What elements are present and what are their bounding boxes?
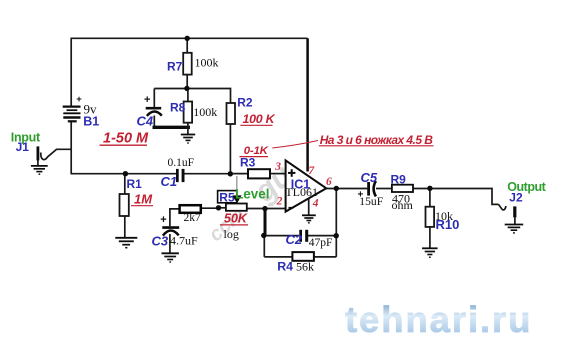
wire R8 top lead	[187, 89, 189, 102]
capacitor C1	[176, 169, 185, 182]
wire C2 row left	[264, 235, 299, 237]
svg-text:B1: B1	[83, 115, 99, 129]
wire R5 wiper from node A	[236, 176, 238, 197]
ground under R1	[115, 238, 137, 248]
wire R7 top lead	[186, 38, 188, 53]
svg-text:100k: 100k	[195, 56, 219, 70]
svg-text:1M: 1M	[134, 192, 153, 207]
node A rail junction	[228, 171, 233, 176]
wire R8 bottom lead	[187, 123, 189, 135]
wire feedback right vertical	[335, 188, 337, 257]
op-amp IC1	[286, 160, 327, 211]
wire C4 top lead	[153, 89, 155, 108]
svg-text:R8: R8	[170, 101, 186, 115]
op-amp plus input sign	[288, 169, 295, 177]
underline pins 4.5V	[319, 145, 434, 147]
wire R5 left lead	[219, 207, 226, 209]
resistor R2	[227, 103, 236, 124]
svg-text:R4: R4	[277, 259, 293, 273]
underline 100 K	[240, 124, 272, 126]
svg-text:4.7uF: 4.7uF	[170, 233, 198, 247]
svg-text:50K: 50K	[224, 212, 248, 226]
node mid junction	[184, 86, 189, 91]
wire R1 bottom lead	[124, 216, 126, 237]
ground under C3	[162, 253, 179, 262]
svg-text:C2: C2	[286, 232, 303, 247]
svg-text:+: +	[144, 94, 150, 106]
ground under R10	[422, 248, 438, 257]
svg-text:Level: Level	[235, 187, 270, 202]
underline 1M	[131, 205, 153, 207]
wire R10 bottom lead	[429, 227, 431, 248]
node C2 right junction	[334, 233, 339, 238]
wire pin 4 lead	[308, 197, 310, 215]
wire R4 row left	[264, 256, 292, 258]
svg-text:TL061: TL061	[285, 185, 318, 199]
wire R5 right lead	[247, 208, 265, 210]
svg-text:47pF: 47pF	[309, 237, 333, 249]
wire battery top lead	[70, 38, 72, 106]
resistor R1	[120, 194, 129, 216]
ground under pin 4	[302, 215, 316, 223]
wire pin 2	[265, 208, 286, 210]
resistor R4	[292, 252, 314, 261]
svg-text:C1: C1	[161, 174, 178, 189]
wire R1 top lead	[124, 174, 126, 194]
input jack J1	[37, 146, 40, 160]
wire node out to J2	[430, 189, 499, 205]
ground under R8	[181, 135, 195, 144]
svg-text:15uF: 15uF	[359, 195, 383, 208]
wire R10 top lead	[429, 189, 431, 207]
wire J2 plug squiggle	[499, 204, 506, 209]
wire mid node right	[187, 89, 231, 104]
op-amp minus input sign	[289, 207, 294, 209]
watermark diagonal gray	[205, 157, 299, 246]
svg-text:ohm: ohm	[392, 198, 414, 212]
wire thick bar C4 to R8 ground	[153, 126, 191, 129]
wire feedback left thick	[264, 209, 267, 236]
capacitor C5	[367, 181, 376, 196]
wire C4 bottom lead	[153, 116, 155, 128]
svg-text:R1: R1	[127, 177, 143, 191]
wire jack J1 to rail	[41, 149, 72, 159]
wire 2k7 to R5 node	[201, 207, 219, 209]
svg-text:2: 2	[276, 196, 283, 208]
wire C1 to node A	[185, 173, 231, 175]
svg-text:На 3 и 6 ножках 4.5 В: На 3 и 6 ножках 4.5 В	[320, 133, 434, 147]
wire node A to R3	[230, 173, 248, 175]
svg-text:1-50 M: 1-50 M	[103, 131, 149, 147]
svg-text:56k: 56k	[296, 260, 314, 274]
svg-text:100k: 100k	[193, 105, 217, 119]
capacitor C4	[146, 107, 162, 116]
resistor R7	[183, 53, 192, 75]
potentiometer R5 wiper arrow	[232, 195, 241, 203]
underline 1-50 M	[100, 144, 148, 146]
node output junction	[334, 186, 339, 191]
wire C3 ground lead	[169, 234, 171, 253]
wire C2 row right	[308, 235, 337, 237]
potentiometer R5 body	[226, 204, 247, 211]
svg-text:4: 4	[312, 198, 319, 210]
battery B1	[63, 107, 81, 122]
svg-text:C4: C4	[137, 113, 154, 128]
potentiometer R5 box	[218, 191, 237, 203]
svg-text:J2: J2	[509, 190, 523, 204]
wire output to C5	[326, 188, 367, 190]
svg-text:R3: R3	[240, 156, 256, 170]
node C2 left junction	[261, 233, 266, 238]
resistor 2k7	[180, 205, 201, 213]
node R1 rail junction	[123, 171, 128, 176]
wire J2 jack ground stub	[514, 217, 516, 224]
wire R2 bottom lead	[229, 124, 231, 174]
svg-text:log: log	[224, 227, 239, 241]
resistor R10	[426, 207, 435, 227]
svg-text:2k7: 2k7	[184, 212, 202, 224]
svg-text:+: +	[76, 94, 82, 105]
svg-text:3: 3	[274, 161, 281, 173]
node top rail junction	[185, 36, 190, 41]
resistor R3	[248, 169, 270, 178]
node pin 2 junction	[262, 206, 267, 211]
tehnari.ru watermark	[345, 299, 532, 340]
svg-text:0.1uF: 0.1uF	[168, 157, 195, 169]
svg-text:6: 6	[326, 176, 332, 188]
ground under J1	[31, 166, 48, 174]
svg-text:+: +	[160, 214, 166, 226]
red connector line	[272, 141, 318, 149]
svg-text:R10: R10	[436, 217, 460, 232]
svg-text:C3: C3	[152, 234, 169, 249]
wire R4 row right	[314, 256, 336, 258]
svg-text:C5: C5	[361, 170, 378, 185]
wire C3 to 2k7	[170, 209, 180, 226]
svg-text:R7: R7	[167, 60, 183, 74]
svg-text:J1: J1	[16, 140, 30, 154]
output jack J2	[513, 206, 516, 217]
resistor R8	[184, 102, 193, 123]
wire R7 bottom lead	[186, 75, 188, 89]
resistor R9	[392, 185, 413, 192]
wire R3 to pin 3	[270, 173, 286, 175]
svg-text:R5: R5	[219, 191, 235, 205]
wire C5 to R9	[376, 188, 392, 190]
capacitor C2	[299, 230, 308, 242]
wire battery bottom lead	[70, 122, 72, 174]
wire feedback left lower	[263, 236, 265, 257]
ground under J2	[505, 225, 524, 233]
svg-text:R2: R2	[237, 95, 253, 109]
wire bottom rail left	[71, 173, 177, 175]
svg-text:tehnari.ru: tehnari.ru	[345, 299, 532, 340]
underline 50K	[220, 224, 248, 226]
node R5 left junction	[216, 205, 221, 210]
wire mid node left	[154, 88, 187, 90]
capacitor C3	[162, 226, 179, 235]
svg-text:R9: R9	[391, 173, 407, 187]
underline 0-1K	[240, 156, 269, 158]
wire pin 7 thick	[306, 38, 309, 171]
wire top rail	[71, 37, 308, 39]
svg-text:100 K: 100 K	[243, 112, 276, 126]
wire J1 jack ground stub	[37, 160, 39, 166]
node R9 R10 junction	[427, 186, 432, 191]
wire R9 to node out	[413, 188, 430, 190]
